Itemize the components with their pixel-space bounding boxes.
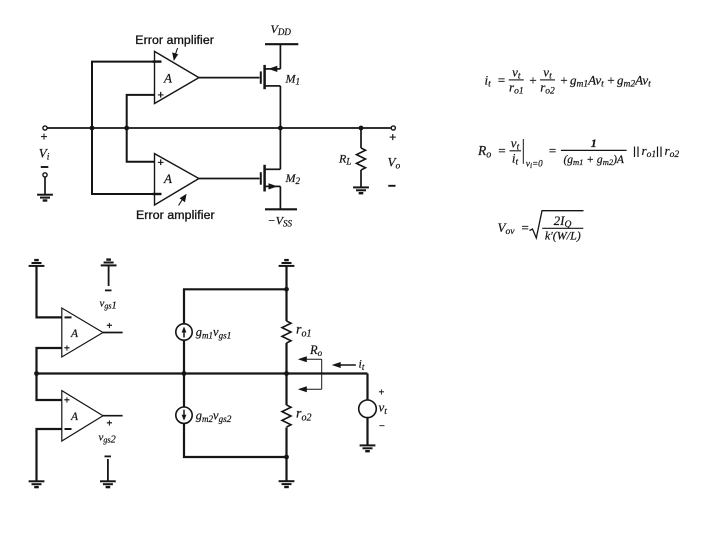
label it with arrow (336, 364, 356, 366)
transistor M2 (NMOS) (261, 128, 281, 209)
wire A3 output (103, 332, 123, 334)
node junction A (90, 126, 95, 131)
svg-text:+: + (529, 73, 538, 88)
op-amp A4 (62, 391, 103, 441)
svg-text:+: + (607, 73, 616, 88)
label minus sign of Vi (41, 166, 49, 168)
wire node to vt source (366, 374, 368, 401)
svg-text:A: A (163, 70, 172, 85)
svg-text:A: A (70, 411, 79, 423)
wire minus of A4 to ground (37, 429, 62, 481)
node RL junction (359, 126, 364, 131)
svg-text:−: − (379, 421, 385, 432)
wire bottom rail (184, 424, 287, 458)
svg-text:+: + (107, 321, 113, 332)
resistor ro1 (282, 321, 291, 343)
svg-text:+: + (41, 130, 48, 144)
label minus sign of Vo (388, 185, 395, 187)
wire input to plus of top error amp (127, 95, 155, 128)
op-amp A3 (62, 308, 103, 357)
svg-text:+: + (560, 73, 569, 88)
current source gm2vgs2 (176, 407, 232, 425)
equation 2: Ro = vt/it |vi=0 = 1/((gm1+gm2)A) || ro1 || ro2 (477, 136, 679, 171)
equation 1: it = vt/ro1 + vt/ro2 + gm1Avt + gm2Avt (485, 65, 652, 97)
svg-text:Error amplifier: Error amplifier (136, 208, 215, 222)
ground below vgs2 (100, 481, 116, 487)
svg-text:=: = (548, 143, 557, 158)
equation 3: Vov = sqrt(2IQ/k'(W/L)) (498, 211, 584, 243)
node CS branch junction (182, 371, 187, 376)
svg-text:+: + (64, 396, 70, 407)
wire input to minus of bottom error amp (92, 128, 155, 194)
power -VSS rail (265, 208, 297, 210)
ground below bottom rail (279, 481, 295, 487)
wire node to plus of A4 (37, 374, 62, 401)
resistor ro2 (282, 405, 291, 427)
node top rail junction (284, 287, 289, 292)
wire node to RL (360, 128, 362, 148)
wire vt source to ground (366, 418, 368, 446)
wire ac-ground to minus of A3 (37, 266, 62, 318)
svg-text:1: 1 (591, 136, 597, 150)
label Vi (39, 130, 50, 163)
wire plus of A3 to node (37, 348, 62, 374)
wire node to ro2 (285, 374, 287, 406)
wire main output line (48, 127, 391, 129)
wire U2 output to M2 gate (199, 178, 260, 180)
node junction B (124, 126, 129, 131)
wire U1 output to M1 gate (199, 77, 260, 79)
svg-text:(gm1 + gm2)A: (gm1 + gm2)A (563, 154, 624, 167)
ground below RL (353, 187, 369, 193)
source vt (359, 400, 377, 418)
ground (ac, flipped) top-left (29, 260, 45, 266)
M1 source arrow (268, 66, 277, 72)
ground bottom-left (29, 481, 45, 487)
svg-text:vi=0: vi=0 (526, 159, 543, 171)
power VDD rail (265, 43, 298, 45)
current source gm1vgs1 (176, 324, 232, 342)
svg-text:Error amplifier: Error amplifier (135, 33, 214, 47)
wire ac-ground above right branch (285, 266, 287, 289)
node drain junction (278, 126, 283, 131)
ground below Vi (37, 195, 53, 201)
arrow from label to U1 (173, 48, 178, 60)
wire node to CS2 (183, 374, 185, 408)
wire top rail (184, 289, 287, 324)
ground (ac, flipped) vgs1 (101, 260, 117, 266)
wire bottom rail to ground (285, 457, 287, 481)
label Vo (388, 130, 401, 172)
label vt (379, 388, 388, 433)
arrow from label to U2 (179, 195, 186, 206)
svg-text:A: A (70, 328, 79, 340)
wire CS1 to node (183, 340, 185, 374)
wire input to minus of top error amp (92, 62, 155, 128)
wire main node line (37, 372, 368, 374)
ground below vt (360, 445, 376, 451)
wire A4 output (103, 415, 123, 417)
wire input to plus of bottom error amp (127, 128, 155, 162)
svg-text:k′(W/L): k′(W/L) (545, 229, 581, 243)
svg-text:+: + (107, 419, 113, 430)
svg-text:A: A (163, 171, 172, 186)
svg-text:+: + (158, 90, 164, 102)
svg-text:+: + (158, 157, 164, 169)
M2 source arrow (269, 183, 278, 189)
svg-text:+: + (379, 388, 385, 399)
op-amp U1 (top error amplifier) (153, 51, 199, 103)
op-amp U2 (bottom error amplifier) (153, 154, 199, 205)
transistor M1 (PMOS) (261, 44, 281, 128)
node input terminal - (43, 173, 47, 177)
node input terminal + (43, 126, 47, 130)
svg-text:+: + (64, 344, 70, 355)
svg-text:it =: it = (485, 73, 506, 90)
node output terminal (391, 126, 395, 130)
wire ro1 to node (285, 343, 287, 374)
svg-text:+: + (389, 130, 396, 144)
wire RL to ground (360, 170, 362, 187)
ground (ac, flipped) above ro1 (279, 260, 295, 266)
node main junction left (34, 371, 39, 376)
resistor RL (357, 148, 366, 170)
node right branch junction (284, 371, 289, 376)
wire input minus terminal to ground (44, 177, 46, 195)
node bottom rail junction (284, 455, 289, 460)
label vgs1 column (108, 265, 110, 286)
